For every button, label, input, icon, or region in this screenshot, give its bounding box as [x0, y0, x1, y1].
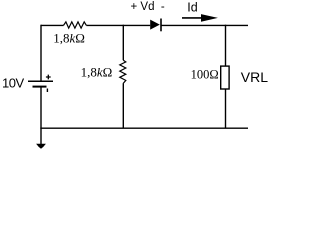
- wire right vertical lower: [225, 89, 227, 128]
- current arrow Id: [182, 17, 203, 19]
- svg-text:1,8kΩ: 1,8kΩ: [81, 65, 113, 80]
- wire top-left horizontal segment: [41, 24, 64, 26]
- ground arrow: [36, 144, 46, 149]
- resistor R1 1,8kOhm series zigzag: [64, 22, 87, 28]
- battery plus sign: [46, 75, 51, 80]
- svg-text:1,8kΩ: 1,8kΩ: [53, 30, 85, 45]
- resistor RL 100 Ohm box: [221, 66, 229, 89]
- svg-text:+ Vd -: + Vd -: [131, 1, 165, 13]
- wire top middle segment: [86, 24, 150, 26]
- wire top right segment: [161, 24, 248, 26]
- svg-text:Id: Id: [187, 0, 197, 14]
- diode D1 cathode bar: [160, 19, 162, 32]
- wire left vertical lower: [40, 87, 42, 129]
- svg-text:10V: 10V: [2, 76, 24, 91]
- battery V1 long plate: [28, 80, 53, 82]
- svg-text:100Ω: 100Ω: [191, 68, 219, 82]
- ground stub: [40, 128, 42, 145]
- wire middle vertical lower: [122, 84, 124, 129]
- svg-text:VRL: VRL: [241, 69, 268, 85]
- battery V1 short plate: [33, 86, 47, 88]
- resistor R2 1,8kOhm shunt zigzag: [120, 60, 126, 83]
- wire left vertical upper: [40, 25, 42, 81]
- wire bottom horizontal: [40, 127, 248, 129]
- diode D1 anode triangle: [150, 20, 160, 30]
- wire middle vertical upper: [122, 25, 124, 61]
- battery minus tick: [46, 89, 48, 93]
- wire right vertical upper: [225, 25, 227, 66]
